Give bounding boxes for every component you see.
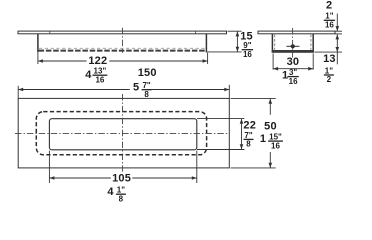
vertical centerline, side view [122, 28, 124, 53]
svg-text:7": 7" [142, 81, 150, 90]
svg-text:105: 105 [112, 172, 131, 184]
plan view hidden recess outline (dashed rounded rect 122 wide) [36, 112, 206, 155]
svg-text:1: 1 [282, 70, 288, 82]
svg-text:13: 13 [323, 53, 336, 65]
svg-text:4: 4 [107, 186, 114, 198]
horizontal centerline, plan view [15, 132, 230, 134]
dim 22 dimension line with arrows [241, 119, 243, 150]
dim 13 bottom extension line [314, 51, 342, 53]
screw hole center mark [286, 45, 299, 47]
hidden inner wall dashes right [310, 35, 312, 50]
hidden recess floor line (upper, light) [39, 47, 206, 49]
svg-text:1: 1 [260, 133, 266, 145]
svg-text:8: 8 [119, 194, 124, 203]
dim 30 left extension line [272, 53, 274, 69]
dim 2 extension lines (flange thickness) [335, 30, 342, 32]
svg-text:9": 9" [243, 41, 251, 50]
svg-text:1": 1" [325, 66, 333, 75]
recess left wall, end view [271, 34, 273, 53]
svg-text:1": 1" [117, 186, 125, 195]
svg-text:150: 150 [138, 67, 157, 79]
dim 22 top extension line [197, 118, 244, 120]
vertical centerline, plan view [122, 94, 124, 172]
recess floor dashed line (thick hidden line) [39, 50, 206, 52]
flange profile, side section view [18, 31, 227, 34]
dim 122 dimension line with arrows [38, 60, 87, 62]
dim 15 bottom extension line [207, 51, 241, 53]
dim 105 left extension line [48, 151, 50, 183]
dim 30 right extension line [312, 53, 314, 69]
recess opening seam ticks on flange [49, 31, 51, 33]
svg-text:3": 3" [289, 68, 297, 77]
dim label 9/16 inch [242, 49, 253, 51]
dim label 1/16 inch [324, 19, 335, 21]
dim label 1/2 inch [324, 74, 334, 76]
svg-text:50: 50 [264, 120, 277, 132]
dim 150 dimension line with arrows [18, 89, 130, 91]
dim 122 right extension line [207, 53, 209, 64]
hidden inner wall dashes left [274, 35, 276, 50]
recess floor band, end view [272, 50, 314, 53]
recess left wall, side view [37, 34, 39, 53]
dim 15 dimension line with arrows [236, 31, 238, 51]
svg-text:30: 30 [287, 56, 300, 68]
svg-text:16: 16 [325, 21, 334, 30]
svg-text:16: 16 [289, 77, 298, 86]
svg-text:16: 16 [243, 50, 252, 59]
dim 122 left extension line [37, 53, 39, 64]
dim 22 bottom extension line [197, 149, 244, 151]
svg-text:5: 5 [133, 82, 139, 94]
svg-text:8: 8 [246, 140, 251, 149]
dim 105 dimension line with arrows [49, 177, 110, 179]
svg-text:8: 8 [144, 90, 149, 99]
dim 13 dimension line with arrows [336, 34, 338, 64]
dim 15 top extension line [228, 30, 242, 32]
dim 50 dimension line with arrows [269, 99, 271, 115]
flange profile, end section view [258, 31, 335, 34]
svg-text:16: 16 [95, 75, 104, 84]
svg-text:1": 1" [325, 12, 333, 21]
dim 50 bottom extension line [231, 167, 276, 169]
dim 105 right extension line [196, 151, 198, 183]
plan view outer rectangle (150 x 50) [18, 98, 229, 167]
dim 30 dimension line with arrows [273, 68, 313, 70]
svg-text:15": 15" [269, 133, 282, 142]
svg-text:7": 7" [244, 131, 252, 140]
svg-text:122: 122 [88, 55, 107, 67]
recess right wall, side view [205, 34, 207, 53]
dim 2 upper arrow [336, 14, 338, 32]
dim 150 left extension line [17, 86, 19, 99]
svg-text:16: 16 [271, 141, 280, 150]
svg-text:2: 2 [326, 0, 332, 12]
dim 50 top extension line [231, 97, 276, 99]
plan view recess opening (inner rounded rect 105 x 22) [49, 119, 196, 150]
dim 150 right extension line [228, 85, 230, 99]
svg-text:4: 4 [85, 69, 92, 81]
recess right wall, end view [312, 34, 314, 53]
svg-text:2: 2 [327, 75, 332, 84]
svg-text:13": 13" [94, 67, 107, 76]
dim label 7/8 inch [244, 138, 254, 140]
vertical centerline, end view [292, 28, 294, 58]
